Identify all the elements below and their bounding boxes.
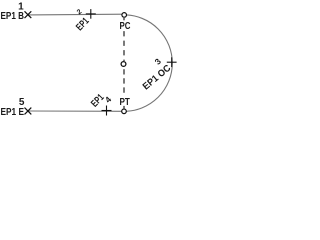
svg-text:PC: PC (120, 21, 131, 32)
svg-text:EP1 OC: EP1 OC (141, 63, 173, 93)
svg-text:2: 2 (76, 8, 83, 16)
svg-text:3: 3 (153, 56, 164, 67)
svg-text:1: 1 (18, 2, 24, 13)
svg-text:5: 5 (19, 97, 25, 108)
svg-text:PT: PT (120, 97, 130, 108)
svg-text:EP1: EP1 (89, 92, 107, 110)
svg-text:EP1: EP1 (74, 16, 92, 34)
svg-text:EP1 E: EP1 E (1, 107, 25, 118)
